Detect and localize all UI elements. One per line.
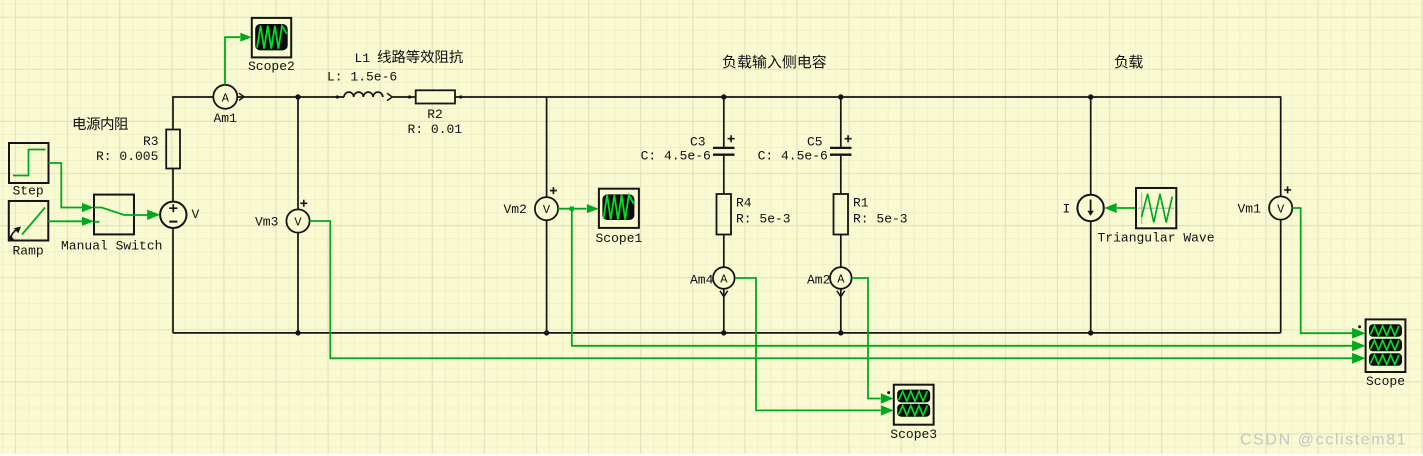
voltmeter Vm1 (1269, 186, 1292, 219)
wire Am1 to top-right corner (237, 96, 344, 98)
step source block Step (9, 143, 49, 183)
scope Scope2 (252, 18, 291, 58)
wire R1 to Am2 (840, 235, 842, 267)
manual switch (94, 195, 134, 235)
ammeter Am1 (213, 85, 237, 109)
svg-text:A: A (222, 92, 230, 106)
node junction top rail Vm3 (295, 94, 300, 99)
wire Vm2 to bottom rail (546, 220, 548, 333)
svg-text:V: V (294, 216, 302, 230)
node junction top rail C3 (721, 94, 726, 99)
svg-text:C: 4.5e-6: C: 4.5e-6 (758, 149, 828, 164)
wire Vm2 to Scope1 (558, 208, 586, 210)
svg-text:R: 5e-3: R: 5e-3 (853, 212, 908, 227)
svg-text:L: 1.5e-6: L: 1.5e-6 (327, 70, 397, 85)
svg-text:L1: L1 (355, 51, 371, 66)
wire top rail to C5 (840, 97, 842, 147)
svg-text:R: 0.01: R: 0.01 (408, 122, 463, 137)
wire Vm3 to bottom rail (297, 233, 299, 333)
wire Vm2 branch to Scope input 2 (572, 209, 1353, 346)
svg-text:R3: R3 (143, 134, 159, 149)
wire switch to V source (134, 214, 148, 216)
svg-text:V: V (192, 207, 200, 222)
wire top rail to C3 (723, 97, 725, 147)
wire I source to bottom rail (1090, 221, 1092, 333)
scope Scope (1358, 319, 1405, 372)
capacitor C3 (713, 135, 735, 155)
wire Am2 to bottom rail with arrow (837, 289, 845, 333)
wire Triangular Wave to I source (1117, 207, 1136, 209)
svg-text:R4: R4 (736, 196, 752, 211)
svg-text:R1: R1 (853, 196, 869, 211)
svg-text:A: A (837, 273, 845, 287)
voltmeter Vm2 (535, 187, 558, 220)
wire Am4 to Scope3 input 2 (735, 278, 881, 410)
current source I (1077, 195, 1103, 221)
node junction top rail I (1088, 94, 1093, 99)
wire top rail to Vm2 (546, 97, 548, 197)
svg-text:R: 5e-3: R: 5e-3 (736, 212, 791, 227)
svg-text:Scope1: Scope1 (596, 231, 643, 246)
pin dot inductor (336, 95, 339, 98)
svg-text:CSDN @cclistem81: CSDN @cclistem81 (1240, 432, 1407, 449)
wire Vm1 bottom to bottom rail (1280, 219, 1282, 333)
svg-text:R: 0.005: R: 0.005 (96, 149, 158, 164)
triangular wave block (1136, 188, 1176, 228)
inductor L1 (344, 92, 383, 97)
wire Ramp to switch (48, 220, 82, 222)
wire R2 to corner, down to Vm1, down to bottom rail (455, 97, 1281, 197)
wire Am2 to Scope3 input 1 (852, 278, 881, 399)
wire Am4 to bottom rail with arrow (720, 289, 728, 333)
svg-text:Manual Switch: Manual Switch (61, 239, 162, 254)
svg-text:Scope2: Scope2 (248, 59, 295, 74)
svg-text:V: V (1277, 203, 1285, 217)
resistor R3 (166, 130, 180, 169)
wire R3 to V source (172, 169, 174, 202)
resistor R1 (834, 194, 849, 235)
node junction bottom rail Am2 (838, 330, 843, 335)
wire V source to bottom rail (172, 228, 174, 333)
scope Scope1 (599, 189, 639, 228)
svg-text:Vm3: Vm3 (255, 215, 278, 230)
voltmeter Vm3 (286, 200, 309, 233)
heading 电源内阻 (74, 117, 128, 130)
svg-text:Am2: Am2 (807, 273, 830, 288)
node junction bottom rail Vm3 (295, 330, 300, 335)
svg-text:C3: C3 (690, 135, 706, 150)
arrow after Am1 (239, 93, 244, 100)
pin dot R2 left (408, 95, 411, 98)
svg-text:Am4: Am4 (690, 273, 714, 288)
svg-text:I: I (1063, 202, 1071, 217)
wire R4 to Am4 (723, 235, 725, 267)
svg-text:C: 4.5e-6: C: 4.5e-6 (641, 149, 711, 164)
resistor R4 (717, 194, 732, 235)
svg-text:Scope: Scope (1366, 374, 1405, 389)
ammeter Am4 (713, 267, 735, 289)
arrow after inductor (387, 93, 392, 100)
svg-text:V: V (543, 203, 551, 217)
node junction top rail C5 (838, 94, 843, 99)
heading 负载输入侧电容 (723, 55, 826, 69)
wire C5 to R1 (840, 156, 842, 194)
svg-text:A: A (720, 273, 728, 287)
wire Step to switch (49, 163, 83, 208)
resistor R2 (416, 90, 455, 103)
wire Vm1 to Scope input 1 (1292, 208, 1353, 333)
scope Scope3 (887, 385, 933, 425)
node junction bottom rail Vm2 (544, 330, 549, 335)
svg-text:Vm1: Vm1 (1238, 202, 1262, 217)
wire inductor to R2 (393, 96, 416, 98)
wire top rail to Vm3 (297, 97, 299, 209)
ramp source block Ramp (9, 201, 49, 241)
svg-text:Am1: Am1 (214, 111, 238, 126)
heading 负载 (1115, 55, 1143, 69)
svg-text:Triangular Wave: Triangular Wave (1098, 231, 1215, 246)
wire top rail to I source (1090, 97, 1092, 195)
capacitor C5 (830, 135, 852, 155)
svg-text:Ramp: Ramp (13, 244, 44, 259)
node junction bottom rail I (1088, 330, 1093, 335)
svg-text:C5: C5 (807, 135, 823, 150)
voltage source V (160, 202, 186, 228)
ammeter Am2 (830, 267, 852, 289)
node junction bottom rail Am4 (721, 330, 726, 335)
wire Am1 to Scope2 (225, 37, 240, 85)
node green junction Vm2 branch (570, 207, 574, 211)
heading 线路等效阻抗 (378, 50, 463, 64)
wire C3 to R4 (723, 156, 725, 194)
svg-text:Vm2: Vm2 (504, 202, 527, 217)
svg-text:Step: Step (13, 184, 44, 199)
wire Vm3 to Scope input 3 (310, 221, 1353, 358)
bottom rail wire (173, 332, 1281, 334)
pin dot R2 right (459, 95, 462, 98)
wire top-left corner to Am1 (173, 97, 213, 130)
svg-text:R2: R2 (427, 107, 443, 122)
svg-text:Scope3: Scope3 (890, 427, 937, 442)
